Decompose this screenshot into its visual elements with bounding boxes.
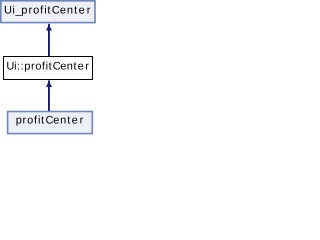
wire arrow shaft upper bbox=[48, 24, 50, 56]
node box Ui_profitCenter bbox=[1, 1, 95, 23]
arrowhead (Ui::profitCenter derives Ui_profitCenter) bbox=[46, 25, 51, 30]
wire arrow shaft lower bbox=[48, 80, 50, 111]
inheritance arrow from profitCenter to Ui::profitCenter bbox=[46, 80, 51, 111]
svg-text:profitCenter: profitCenter bbox=[16, 115, 84, 127]
svg-text:Ui_profitCenter: Ui_profitCenter bbox=[4, 4, 91, 16]
node box Ui::profitCenter bbox=[4, 57, 93, 80]
background bbox=[0, 0, 97, 136]
arrowhead (profitCenter derives Ui::profitCenter) bbox=[46, 82, 51, 87]
node box profitCenter bbox=[8, 112, 93, 134]
inheritance arrow from Ui::profitCenter to Ui_profitCenter bbox=[46, 24, 51, 56]
svg-text:Ui::profitCenter: Ui::profitCenter bbox=[6, 60, 89, 72]
